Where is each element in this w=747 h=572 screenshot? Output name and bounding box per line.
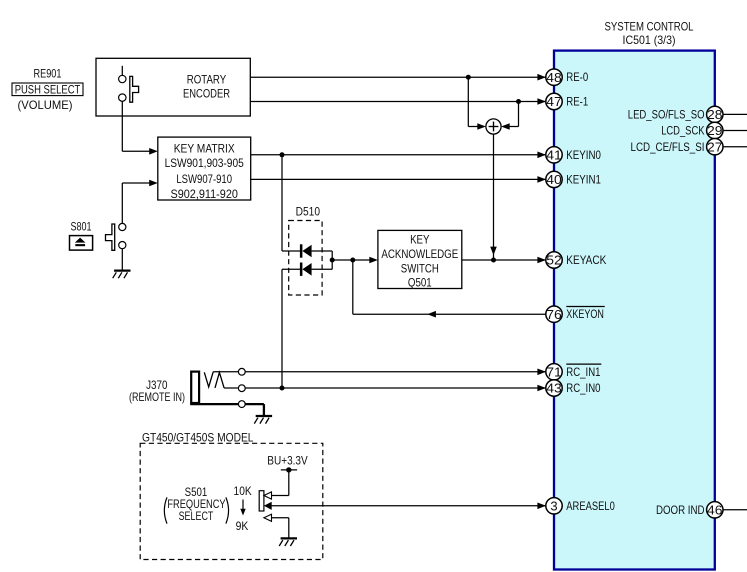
- junction on KEYIN0: [280, 152, 285, 157]
- svg-text:ENCODER: ENCODER: [183, 87, 230, 101]
- svg-text:(REMOTE IN): (REMOTE IN): [129, 390, 185, 404]
- summing node symbol (circle-plus): [486, 119, 501, 134]
- key acknowledge switch Q501 box: [378, 230, 462, 288]
- svg-text:KEYIN1: KEYIN1: [566, 172, 601, 186]
- svg-text:AREASEL0: AREASEL0: [566, 499, 615, 513]
- ground below J370: [254, 416, 272, 424]
- GT450 dashed option box: [140, 443, 323, 559]
- label RE901 PUSH SELECT (VOLUME): [12, 67, 83, 113]
- S501 middle contact: [264, 502, 272, 510]
- svg-text:71: 71: [546, 365, 562, 380]
- svg-text:LSW901,903-905: LSW901,903-905: [165, 156, 244, 170]
- wire from summing point down to KEYACK net: [490, 134, 497, 260]
- svg-text:27: 27: [707, 139, 723, 154]
- switch S801 actuator: [106, 224, 115, 250]
- svg-text:SELECT: SELECT: [179, 509, 214, 523]
- svg-text:40: 40: [546, 172, 562, 187]
- pin 52 KEYACK: [546, 252, 607, 268]
- label 10K / 9K resistance positions: [234, 484, 252, 533]
- wire RE-0 drop to summing point: [468, 77, 486, 130]
- wire S801 contact to key matrix: [122, 180, 158, 224]
- pin 48 RE-0: [546, 69, 589, 85]
- key matrix block LSW901-920: [158, 137, 251, 200]
- junction at D510 anodes: [330, 258, 335, 263]
- S501 top contact: [264, 492, 272, 499]
- wire D510 anodes join: [312, 251, 333, 269]
- pin 46 DOOR IND: [656, 502, 747, 518]
- S501 bottom contact: [264, 514, 272, 521]
- pin 3 AREASEL0: [546, 498, 615, 514]
- RE901 push switch actuator: [130, 76, 139, 102]
- svg-text:PUSH SELECT: PUSH SELECT: [15, 83, 81, 97]
- svg-text:RE-1: RE-1: [566, 95, 588, 109]
- svg-text:LCD_SCK: LCD_SCK: [661, 126, 705, 138]
- svg-text:47: 47: [546, 94, 562, 109]
- diode D510 upper: [300, 244, 312, 257]
- connector J370 sleeve body: [191, 372, 199, 403]
- pin 41 KEYIN0: [546, 147, 601, 163]
- svg-text:RE901: RE901: [34, 67, 62, 81]
- svg-text:SYSTEM CONTROL: SYSTEM CONTROL: [605, 20, 694, 34]
- svg-text:10K: 10K: [234, 484, 252, 498]
- svg-text:IC501 (3/3): IC501 (3/3): [623, 33, 676, 47]
- svg-text:SWITCH: SWITCH: [401, 261, 439, 275]
- svg-text:41: 41: [546, 148, 562, 163]
- svg-text:RC_IN0: RC_IN0: [566, 381, 600, 395]
- svg-text:43: 43: [546, 381, 562, 396]
- svg-text:48: 48: [546, 70, 562, 85]
- svg-text:Q501: Q501: [408, 276, 432, 290]
- D510 dashed package box: [289, 221, 322, 296]
- J370 contact terminals: [238, 368, 245, 407]
- svg-text:76: 76: [546, 307, 562, 322]
- pin 71 RC_IN1: [546, 364, 602, 380]
- pin 43 RC_IN0: [546, 380, 601, 396]
- wire RC_IN1 net: [213, 369, 546, 376]
- wire KEYIN1 net: [251, 176, 546, 183]
- svg-text:46: 46: [707, 503, 723, 518]
- ground below S801: [113, 271, 131, 279]
- wire KEYACK net: [462, 257, 546, 264]
- svg-text:(VOLUME): (VOLUME): [18, 98, 73, 112]
- wire RE-1 net: [250, 98, 546, 105]
- svg-text:3: 3: [550, 499, 557, 514]
- J370 tip contact: [204, 372, 213, 387]
- wire AREASEL0 net: [271, 503, 546, 510]
- svg-text:D510: D510: [296, 205, 321, 219]
- RE901 push switch contacts: [119, 66, 126, 102]
- label S501 FREQUENCY SELECT: [164, 485, 228, 524]
- power BU+3.3V: [267, 453, 307, 472]
- label S801 eject: [70, 219, 93, 250]
- svg-text:28: 28: [707, 107, 723, 122]
- svg-text:RE-0: RE-0: [566, 70, 588, 84]
- svg-text:LED_SO/FLS_SO: LED_SO/FLS_SO: [628, 110, 705, 122]
- svg-text:9K: 9K: [236, 519, 249, 533]
- svg-text:GT450/GT450S MODEL: GT450/GT450S MODEL: [142, 431, 254, 445]
- rotary encoder RE901 box: [96, 58, 250, 116]
- svg-text:S902,911-920: S902,911-920: [170, 187, 238, 201]
- wire XKEYON net: [353, 260, 554, 318]
- junction on RE-0: [466, 75, 471, 80]
- diode D510 lower: [300, 263, 312, 276]
- switch S501 body: [259, 491, 264, 511]
- svg-text:ROTARY: ROTARY: [187, 73, 226, 87]
- svg-text:KEY MATRIX: KEY MATRIX: [174, 142, 235, 156]
- wire RE-1 drop to summing point: [501, 102, 518, 130]
- pin 29 LCD_SCK: [661, 122, 747, 138]
- svg-text:ACKNOWLEDGE: ACKNOWLEDGE: [381, 247, 458, 261]
- pin 28 LED_SO/FLS_SO: [628, 106, 747, 122]
- svg-text:LCD_CE/FLS_SI: LCD_CE/FLS_SI: [631, 142, 705, 154]
- svg-text:KEY: KEY: [410, 233, 429, 247]
- svg-text:29: 29: [707, 123, 723, 138]
- junction on RC_IN0: [280, 386, 285, 391]
- svg-text:BU+3.3V: BU+3.3V: [267, 453, 307, 467]
- junction on KEYACK: [491, 258, 496, 263]
- pin 27 LCD_CE/FLS_SI: [631, 139, 747, 155]
- junction before key acknowledge switch: [350, 258, 355, 263]
- svg-text:DOOR IND: DOOR IND: [656, 505, 705, 517]
- pin 76 XKEYON: [546, 306, 605, 322]
- IC501 title label: [605, 20, 694, 47]
- wire KEYIN0 to D510 upper cathode: [282, 155, 301, 251]
- wire J370 sleeve to ground: [190, 404, 264, 416]
- wire RE901 contact to key matrix: [122, 101, 158, 154]
- label J370 (REMOTE IN): [129, 378, 185, 404]
- svg-text:LSW907-910: LSW907-910: [176, 172, 232, 186]
- pin 47 RE-1: [546, 93, 589, 109]
- svg-text:RC_IN1: RC_IN1: [566, 365, 600, 379]
- junction on RE-1: [516, 99, 521, 104]
- svg-text:KEYIN0: KEYIN0: [566, 148, 601, 162]
- wire S801 to ground: [121, 249, 123, 271]
- ground below S501: [279, 538, 297, 546]
- svg-text:XKEYON: XKEYON: [566, 307, 604, 321]
- IC501 system-control block: [554, 51, 715, 570]
- svg-text:52: 52: [546, 253, 562, 268]
- wire KEYIN0 net: [251, 152, 546, 159]
- svg-text:KEYACK: KEYACK: [566, 253, 606, 267]
- wire S501 bottom contact to ground: [271, 518, 288, 539]
- wire D510 to key acknowledge switch: [332, 257, 378, 264]
- J370 ring contact: [215, 372, 224, 388]
- svg-text:S801: S801: [70, 219, 91, 233]
- wire RC_IN0 to D510 lower cathode: [282, 269, 301, 388]
- wire RE-0 net: [250, 74, 546, 81]
- pin 40 KEYIN1: [546, 171, 601, 187]
- wire BU+3.3V to S501 top contact: [271, 470, 288, 496]
- switch S801 contacts: [119, 223, 126, 248]
- wire RC_IN0 net: [224, 385, 546, 392]
